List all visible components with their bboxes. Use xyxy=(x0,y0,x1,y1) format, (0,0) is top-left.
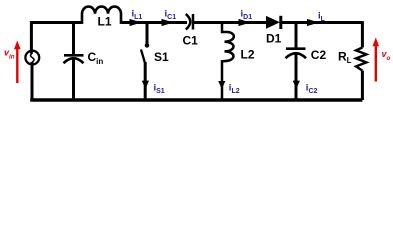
source Vin circle xyxy=(25,51,39,65)
voltage arrow vin xyxy=(16,48,18,83)
wire bottom rail xyxy=(30,98,362,101)
svg-text:S1: S1 xyxy=(154,50,169,64)
diode D1 xyxy=(266,16,280,29)
wire switch S1 stub xyxy=(146,21,149,43)
source sine symbol xyxy=(31,53,35,62)
svg-text:L1: L1 xyxy=(98,15,112,29)
current arrow iD1 xyxy=(239,19,251,26)
switch S1 blade xyxy=(141,50,145,63)
wire top rail segment D1 to right corner xyxy=(282,21,362,24)
svg-text:C1: C1 xyxy=(183,34,199,48)
capacitor C1 xyxy=(186,14,191,30)
wire S1 to bottom rail xyxy=(144,62,147,100)
wire right branch top xyxy=(361,21,364,47)
wire Cin branch bottom xyxy=(72,58,75,100)
current arrow iS1 xyxy=(142,81,149,89)
switch S1 contact dot xyxy=(145,43,150,48)
wire top rail segment L1 to C1 xyxy=(121,21,187,24)
resistor RL xyxy=(356,48,366,71)
wire right branch bottom xyxy=(361,71,364,100)
wire left branch bottom xyxy=(31,62,34,100)
voltage arrow vo xyxy=(375,45,377,82)
wire C2 stub xyxy=(295,21,298,48)
wire top rail left segment xyxy=(30,21,82,24)
wire left branch top xyxy=(30,21,33,53)
wire top rail segment C1 to D1 xyxy=(194,21,266,24)
current arrow iC1 xyxy=(162,19,174,26)
svg-text:D1: D1 xyxy=(266,32,282,46)
svg-text:L2: L2 xyxy=(241,48,255,62)
wire C2 to bottom rail xyxy=(295,53,298,100)
svg-text:C2: C2 xyxy=(311,48,327,62)
current arrow iL xyxy=(307,19,319,26)
inductor L1 xyxy=(82,7,121,24)
current arrow iC2 xyxy=(293,81,300,89)
current arrow iL1 xyxy=(130,19,142,26)
capacitor C2 xyxy=(286,47,306,50)
capacitor Cin xyxy=(64,54,84,57)
inductor L2 xyxy=(222,21,234,100)
wire Cin branch top xyxy=(72,21,75,54)
current arrow iL2 xyxy=(218,81,225,89)
